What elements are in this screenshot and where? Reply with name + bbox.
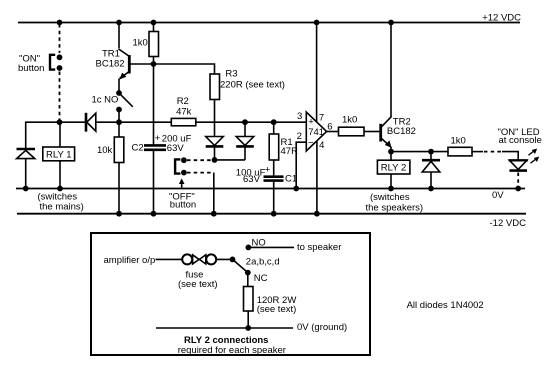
node: junction pin2 / 0V (293, 186, 299, 192)
wire: pin 7 to +12V (316, 23, 318, 123)
arrow to OFF button (179, 178, 185, 187)
0V rail (16, 188, 525, 190)
resistor 10k (97, 122, 124, 214)
svg-text:BC182: BC182 (96, 58, 125, 69)
svg-text:the speakers): the speakers) (366, 202, 424, 213)
svg-text:C2: C2 (132, 143, 144, 154)
+12V rail (18, 22, 520, 24)
svg-text:1k0: 1k0 (133, 37, 148, 48)
node: ON button top contact (57, 54, 63, 60)
relay RLY 2 (377, 152, 410, 189)
svg-text:47k: 47k (176, 106, 192, 117)
node: junction D5 / 0V (428, 186, 434, 192)
node: rail dot 1k0 (151, 20, 157, 26)
switch arm 2a,b,c,d (233, 259, 248, 272)
node: junction 120R / ground (245, 325, 251, 331)
wire: emitter rail to 1k0 (391, 151, 448, 153)
resistor 1k0 (top) (133, 23, 159, 65)
wire: OFF column to -12V (213, 173, 215, 214)
svg-text:at console: at console (499, 135, 542, 146)
wire: R1 to C1 (273, 160, 275, 177)
svg-text:63V: 63V (167, 143, 185, 154)
wire: 1k0 to LED solid (472, 151, 483, 153)
svg-text:+: + (265, 164, 271, 175)
wire: main wire mid segment (96, 121, 171, 123)
fuse (see text) (178, 254, 218, 290)
wire: ground wire (156, 327, 293, 329)
wire: 1k0 to TR2 base (364, 131, 380, 133)
diode D5 (points up, across RLY2) (422, 152, 440, 189)
wire: TR1 base junction to R3 (154, 64, 215, 74)
switch "OFF" button bracket (175, 159, 180, 173)
svg-text:the mains): the mains) (40, 202, 84, 213)
svg-text:C1: C1 (285, 173, 297, 184)
wire: amp to fuse (156, 258, 183, 260)
svg-text:+12 VDC: +12 VDC (482, 12, 521, 23)
node: junction C1 / -12V (271, 211, 277, 217)
svg-text:1k0: 1k0 (342, 115, 357, 126)
svg-text:1c NO: 1c NO (92, 95, 119, 106)
svg-text:741: 741 (308, 127, 324, 138)
svg-text:0V (ground): 0V (ground) (297, 322, 347, 333)
svg-text:(see text): (see text) (178, 279, 218, 290)
svg-text:+: + (155, 133, 161, 144)
resistor R1 47R (269, 122, 298, 160)
resistor 1k0 (LED) (448, 135, 472, 156)
wire: dashed from OFF button bottom (187, 172, 212, 174)
wire: NO to speaker (251, 246, 295, 248)
resistor R3 220R (210, 68, 285, 99)
diode D2 in main wire (points left) (86, 113, 96, 132)
LED "ON" at console (points down) (509, 149, 540, 171)
wire: pin 4 to -12V (316, 141, 318, 214)
node: junction RLY2 / 0V (388, 186, 394, 192)
svg-text:−: − (308, 138, 314, 149)
wire: D4 top lead (244, 122, 246, 136)
wire: RLY1 bottom lead (59, 161, 61, 189)
svg-text:amplifier o/p: amplifier o/p (104, 255, 156, 266)
wire: D3 to junction (214, 146, 216, 160)
wire: op-amp output (327, 131, 339, 133)
switch 1c NO (92, 90, 133, 122)
svg-text:63V: 63V (243, 174, 261, 185)
svg-text:220R (see text): 220R (see text) (220, 79, 285, 90)
-12V rail (17, 213, 526, 215)
node: NO contact (246, 245, 252, 251)
resistor 120R 2W (244, 287, 297, 315)
wire: 120R to ground wire (247, 311, 249, 328)
wire: R3 to diode D3 (crosses main wire, no dot) (214, 100, 216, 137)
node: rail dot op-amp pin7 (314, 20, 320, 26)
transistor Q2 TR2 BC182 (381, 23, 416, 152)
wire: NC to 120R (247, 273, 249, 287)
svg-text:2: 2 (297, 131, 302, 142)
node: junction 10k / -12V (116, 211, 122, 217)
node: junction LED / 0V (515, 186, 521, 192)
svg-text:NC: NC (254, 273, 268, 284)
wire: left column down (25, 121, 27, 148)
diode D3 (points down) (206, 137, 224, 147)
capacitor C2 200uF 63V (132, 133, 192, 154)
svg-text:R3: R3 (225, 68, 237, 79)
transistor Q1 TR1 BC182 (96, 23, 130, 94)
node: junction TR1 base / 1k0 / C2 column (151, 61, 157, 67)
node: junction C2 / -12V (151, 211, 157, 217)
wire: TR1 base lead (130, 63, 154, 65)
capacitor C1 100uF 63V (236, 164, 297, 185)
node: junction diode D4 (242, 119, 248, 125)
wire: LED dashed to 0V (517, 173, 519, 187)
wire: main wire right segment to op-amp (196, 121, 306, 123)
wire: dashed to LED (484, 151, 502, 153)
svg-text:button: button (18, 63, 44, 74)
svg-text:RLY 2: RLY 2 (381, 163, 407, 174)
svg-text:1k0: 1k0 (451, 135, 466, 146)
node: junction D3/D4 bottoms (212, 157, 218, 163)
svg-text:RLY 1: RLY 1 (46, 149, 72, 160)
node: NC contact (245, 270, 251, 276)
svg-text:BC182: BC182 (387, 126, 416, 137)
node: rail dot TR2 collector (388, 20, 394, 26)
svg-text:required for each speaker: required for each speaker (178, 345, 286, 356)
wire: dashed to OFF button top (187, 159, 211, 161)
node: ON button bottom contact (57, 65, 63, 71)
wire: column down to C2 (crosses main wire) (153, 64, 155, 145)
svg-text:3: 3 (297, 111, 302, 122)
wire: LED corner (502, 152, 518, 161)
node: junction TR2 emitter (388, 149, 394, 155)
wire: C1 to -12V (273, 181, 275, 214)
svg-text:10k: 10k (97, 145, 113, 156)
svg-text:to speaker: to speaker (297, 242, 341, 253)
diode D4 (points down) (236, 137, 254, 147)
wire: D4 bottom lead (244, 146, 246, 160)
node: junction RLY1 / 0V (57, 186, 63, 192)
node: OFF button bottom contact (181, 170, 187, 176)
svg-text:All diodes 1N4002: All diodes 1N4002 (407, 300, 484, 311)
resistor 1k0 (op-amp output) (339, 115, 365, 136)
relay RLY 1 (43, 147, 75, 161)
wire: pin 2 to 0V (296, 142, 306, 188)
wire: fuse to common (216, 258, 232, 260)
node: junction OFF column / -12V (211, 211, 217, 217)
wire: C2 to -12V (153, 150, 155, 214)
node: relay common contact (230, 257, 236, 263)
wire: link between diode bottoms (215, 159, 246, 161)
wire: ON button dashed upper (59, 24, 61, 53)
op-amp U1 741 (297, 111, 333, 151)
node: junction D1 / 0V (23, 186, 29, 192)
node: junction ON column / main wire (57, 119, 63, 125)
diode D1 (points up, across RLY1) (17, 149, 36, 159)
svg-text:(see text): (see text) (257, 304, 297, 315)
wire: left column lower (25, 159, 27, 189)
node: junction 10k / 1cNO (116, 119, 122, 125)
RLY2 connections box (91, 233, 370, 355)
svg-text:button: button (170, 200, 196, 211)
node: OFF button top contact (181, 157, 187, 163)
switch "ON" button bracket (50, 55, 55, 70)
node: junction D5 (428, 149, 434, 155)
svg-text:-12 VDC: -12 VDC (490, 218, 527, 229)
svg-text:2a,b,c,d: 2a,b,c,d (246, 256, 280, 267)
node: rail dot ON button (57, 20, 63, 26)
resistor R2 47k (171, 96, 196, 126)
wire: main wire left segment (26, 121, 86, 123)
node: junction R1 (271, 119, 277, 125)
svg-text:7: 7 (319, 113, 324, 124)
wire: RLY1 top lead (59, 122, 61, 147)
wire: ON button dashed lower (59, 72, 61, 122)
svg-text:0V: 0V (492, 190, 504, 201)
node: rail dot TR1 collector (116, 20, 122, 26)
svg-text:4: 4 (319, 140, 324, 151)
node: junction pin4 / -12V (314, 211, 320, 217)
svg-text:(switches: (switches (370, 192, 410, 203)
